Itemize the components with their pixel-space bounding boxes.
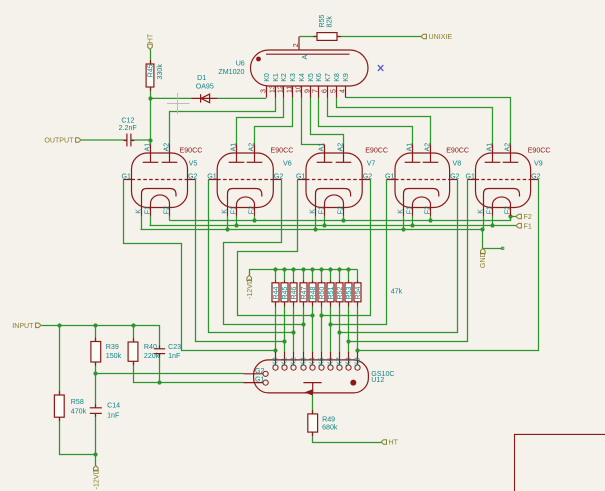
svg-text:F2: F2 xyxy=(504,206,512,214)
resistor R48 47k array xyxy=(309,283,316,302)
U12 anode xyxy=(303,382,321,384)
triode tube V6 E90CC xyxy=(217,153,273,208)
svg-text:R58: R58 xyxy=(71,398,84,406)
wire resistor 6 bottom to GS10C pin column xyxy=(321,307,323,353)
U12 cathode pin K5 xyxy=(319,365,324,370)
nixie tube U6 ZM1020 xyxy=(251,50,369,86)
wire R49 bottom to HT label xyxy=(313,433,382,443)
wire V9 G1 to GS10C pin K8 column xyxy=(349,180,468,342)
svg-text:F1: F1 xyxy=(318,206,326,214)
U12 cathode pin K2 xyxy=(291,365,296,370)
svg-text:A1: A1 xyxy=(144,143,152,152)
label HT (bottom right) xyxy=(381,440,386,445)
label OUTPUT xyxy=(76,138,81,143)
junction F1 bus at V9 xyxy=(490,223,494,227)
svg-text:K7: K7 xyxy=(335,357,343,366)
svg-text:3: 3 xyxy=(259,89,267,93)
svg-text:E90CC: E90CC xyxy=(271,146,294,154)
label HT (top) xyxy=(148,44,153,49)
wire -12VD bus to R array resistor 9 top xyxy=(348,270,350,281)
wire V8 G2 to GS10C pin K7 column xyxy=(340,180,458,333)
junction -12VD bus at resistor 8 xyxy=(337,267,341,271)
wire input node down to R40 xyxy=(133,326,135,343)
label F1 xyxy=(516,223,521,228)
resistor R51 47k array xyxy=(327,283,334,302)
DNP marker X xyxy=(378,65,383,71)
svg-text:K6: K6 xyxy=(326,357,334,366)
wire resistor 8 bottom to GS10C pin column xyxy=(339,307,341,353)
label UNIXIE xyxy=(421,34,426,39)
svg-text:F2: F2 xyxy=(337,206,345,214)
wire OUTPUT label to C12 xyxy=(81,139,127,141)
svg-text:9: 9 xyxy=(303,89,311,93)
junction -12VD bus at resistor 3 xyxy=(291,267,295,271)
component lead stubs xyxy=(150,60,152,64)
junction GS10C column 1 grid tap xyxy=(273,348,277,352)
wire net K5: nixie pin 9 to V7 A2 xyxy=(311,98,344,145)
resistor R45 xyxy=(146,64,154,87)
svg-text:R49: R49 xyxy=(322,416,335,424)
junction -12VD bus at resistor 2 xyxy=(282,267,286,271)
capacitor C12 xyxy=(126,134,128,147)
wire -12VD node to label xyxy=(95,455,97,466)
wire resistor 10 bottom to GS10C pin column xyxy=(357,307,359,353)
junction F1 bus at V7 xyxy=(322,223,326,227)
svg-text:F1: F1 xyxy=(524,222,532,230)
svg-text:82k: 82k xyxy=(325,16,333,28)
svg-text:C23: C23 xyxy=(168,343,181,351)
resistor R58 xyxy=(54,395,64,417)
V6 plate A2 xyxy=(254,145,256,163)
U12 cathode pin K0 xyxy=(273,365,278,370)
svg-text:G1: G1 xyxy=(122,173,132,181)
junction GS10C column 8 grid tap xyxy=(337,330,341,334)
label -12VD (bottom left) xyxy=(94,466,99,471)
triode tube V9 E90CC xyxy=(476,153,531,208)
wire K bus to GND label xyxy=(483,230,503,249)
svg-text:F1: F1 xyxy=(144,206,152,214)
V6 grid line and pins G1 G2 xyxy=(217,179,273,181)
svg-text:-12VD: -12VD xyxy=(246,279,254,299)
svg-text:R44: R44 xyxy=(272,286,280,299)
V9 filament F1 F2 xyxy=(493,197,511,208)
wire net K1: nixie pin 13 to V5 A2 xyxy=(170,98,276,145)
U12 cathode pin K3 xyxy=(301,365,306,370)
junction input line at R58 xyxy=(57,323,61,327)
svg-text:UNIXIE: UNIXIE xyxy=(429,33,453,41)
junction input line at R40 xyxy=(131,323,135,327)
V6 filament F1 F2 xyxy=(237,197,255,208)
wire resistor 7 bottom to GS10C pin column xyxy=(330,307,332,353)
svg-text:K3: K3 xyxy=(289,73,297,82)
svg-text:2: 2 xyxy=(292,43,300,47)
svg-text:F2: F2 xyxy=(524,213,532,221)
svg-text:G2: G2 xyxy=(188,173,198,181)
wire -12VD bus to R array resistor 8 top xyxy=(339,270,341,281)
wire GS10C anode to R49 xyxy=(312,393,314,414)
svg-text:5: 5 xyxy=(329,89,337,93)
resistor R55 xyxy=(317,33,337,41)
junction F2 bus at V8 xyxy=(428,218,432,222)
svg-text:R46: R46 xyxy=(290,286,298,299)
wire net K9: nixie pin 4 to V9 A2 xyxy=(346,98,511,145)
svg-text:A2: A2 xyxy=(424,143,432,152)
wire V5 K pin to K bus xyxy=(141,216,143,230)
diode D1 OA95 xyxy=(191,97,217,99)
junction -12VD bus at resistor 1 xyxy=(273,267,277,271)
junction GS10C column 7 grid tap xyxy=(328,322,332,326)
V7 grid line and pins G1 G2 xyxy=(306,179,362,181)
junction K bus at V8 xyxy=(401,227,405,231)
junction F2 bus at V9 xyxy=(508,214,512,218)
wire V7 G2 to GS10C pin K5 column xyxy=(322,180,371,316)
svg-text:U6: U6 xyxy=(236,60,245,68)
svg-text:R52: R52 xyxy=(336,286,344,299)
svg-text:K2: K2 xyxy=(289,357,297,366)
nixie U6 cathode pins K0-K9 xyxy=(266,86,268,98)
wire resistor 3 bottom to GS10C pin column xyxy=(293,307,295,353)
svg-text:10: 10 xyxy=(294,85,302,93)
wire resistor 4 bottom to GS10C pin column xyxy=(303,307,305,353)
svg-text:E90CC: E90CC xyxy=(446,146,469,154)
svg-text:A2: A2 xyxy=(248,143,256,152)
svg-text:1nF: 1nF xyxy=(168,352,181,360)
U12 cathode pin K4 xyxy=(310,365,315,370)
svg-text:K9: K9 xyxy=(342,73,350,82)
svg-text:470k: 470k xyxy=(71,408,87,416)
svg-text:K3: K3 xyxy=(299,357,307,366)
wire -12VD bus to R array resistor 10 top xyxy=(357,270,359,281)
svg-text:1nF: 1nF xyxy=(107,412,120,420)
resistor R53 47k array xyxy=(345,283,352,302)
V9 plate A2 xyxy=(510,145,512,163)
svg-text:A1: A1 xyxy=(318,143,326,152)
wire -12VD bus to R array resistor 4 top xyxy=(303,270,305,281)
V5 grid line and pins G1 G2 xyxy=(132,179,188,181)
svg-text:C12: C12 xyxy=(121,116,134,124)
V9 cathode xyxy=(484,189,520,208)
resistor R50 47k array xyxy=(318,283,325,302)
label INPUT xyxy=(36,323,41,328)
svg-text:A1: A1 xyxy=(486,143,494,152)
label F2 xyxy=(516,214,521,219)
junction F1 bus at V8 xyxy=(410,223,414,227)
svg-text:A1: A1 xyxy=(406,143,414,152)
svg-text:K2: K2 xyxy=(280,73,288,82)
svg-text:2.2nF: 2.2nF xyxy=(119,124,138,132)
svg-text:G1: G1 xyxy=(207,173,217,181)
wire C23 junction to GS10C G1 xyxy=(160,382,244,384)
svg-text:150k: 150k xyxy=(106,352,122,360)
svg-text:R48: R48 xyxy=(309,286,317,299)
junction GS10C column 2 grid tap xyxy=(282,339,286,343)
svg-text:A: A xyxy=(301,55,309,60)
V5 plate A2 xyxy=(169,145,171,163)
wire net K2: nixie pin 12 to V6 A1 xyxy=(237,98,284,145)
junction C23/R40/G1 node xyxy=(157,380,161,384)
svg-text:K: K xyxy=(135,209,143,214)
svg-text:K1: K1 xyxy=(280,357,288,366)
triode tube V8 E90CC xyxy=(395,153,450,208)
svg-text:4: 4 xyxy=(338,89,346,93)
V5 filament F1 F2 xyxy=(151,195,170,208)
wire V5 F1 pin to F1 bus xyxy=(150,216,152,226)
svg-text:K: K xyxy=(397,209,405,214)
svg-text:R54: R54 xyxy=(354,286,362,299)
wire nixie pin 2 to R55 xyxy=(300,36,318,38)
svg-text:330k: 330k xyxy=(156,64,164,80)
capacitor C23 xyxy=(154,348,165,350)
V8 grid line and pins G1 G2 xyxy=(395,179,450,181)
U12 cathode pin K6 xyxy=(328,365,333,370)
svg-text:F2: F2 xyxy=(248,206,256,214)
V7 cathode xyxy=(316,189,351,208)
junction GS10C column 6 grid tap xyxy=(319,313,323,317)
svg-text:A2: A2 xyxy=(337,143,345,152)
wire resistor 9 bottom to GS10C pin column xyxy=(348,307,350,353)
V7 bottom pin stubs xyxy=(315,208,317,216)
U12 cathode pin K8 xyxy=(346,365,351,370)
triode tube V5 E90CC xyxy=(132,153,188,208)
nixie U6 anode pin 2 xyxy=(298,37,300,51)
svg-text:K1: K1 xyxy=(272,73,280,82)
wire V9 F1 pin to F1 bus xyxy=(492,216,494,226)
wire -12VD bus to R array resistor 2 top xyxy=(284,270,286,281)
svg-text:13: 13 xyxy=(268,85,276,93)
svg-text:G2: G2 xyxy=(531,173,541,181)
junction F2 bus at V6 xyxy=(252,218,256,222)
svg-text:K0: K0 xyxy=(263,73,271,82)
svg-text:C14: C14 xyxy=(107,402,120,410)
junction GS10C column 4 grid tap xyxy=(301,322,305,326)
wire net K8: nixie pin 5 to V9 A1 xyxy=(337,98,493,145)
svg-text:G1: G1 xyxy=(385,173,395,181)
resistor R40 xyxy=(128,342,138,361)
V8 cathode xyxy=(404,189,439,208)
svg-text:GND: GND xyxy=(479,252,487,268)
svg-text:G2: G2 xyxy=(450,173,460,181)
wire V5 F2 pin to F2 bus xyxy=(169,216,171,221)
wire R39 bottom junction to GS10C G2 xyxy=(96,373,244,375)
junction GS10C column 9 grid tap xyxy=(346,339,350,343)
V5 cathode xyxy=(142,189,177,208)
wire V6 F2 pin to F2 bus xyxy=(254,216,256,221)
svg-text:K9: K9 xyxy=(353,357,361,366)
svg-text:R45: R45 xyxy=(281,286,289,299)
wire input node down to R39 xyxy=(95,326,97,342)
dekatron tube U12 GS10C xyxy=(254,360,369,393)
V8 bottom pin stubs xyxy=(403,208,405,216)
wire -12VD bus to R array resistor 3 top xyxy=(293,270,295,281)
svg-text:680k: 680k xyxy=(322,423,338,431)
svg-text:V9: V9 xyxy=(534,159,543,167)
junction -12VD bus at resistor 6 xyxy=(319,267,323,271)
wire V8 F2 pin to F2 bus xyxy=(430,216,432,221)
svg-text:R40: R40 xyxy=(144,343,157,351)
wire resistor 1 bottom to GS10C pin column xyxy=(275,307,277,353)
svg-text:R50: R50 xyxy=(318,286,326,299)
resistor R49 xyxy=(308,414,318,432)
wire resistor 5 bottom to GS10C pin column xyxy=(312,307,314,353)
wire V7 F2 pin to F2 bus xyxy=(343,216,345,221)
wire resistor 2 bottom to GS10C pin column xyxy=(284,307,286,353)
wire V8 K pin to K bus xyxy=(403,216,405,230)
svg-text:OA95: OA95 xyxy=(196,83,214,91)
V8 plate A2 xyxy=(430,145,432,163)
svg-text:K7: K7 xyxy=(324,73,332,82)
wire R45 bottom to K0 junction xyxy=(150,88,152,99)
svg-text:12: 12 xyxy=(276,85,284,93)
svg-text:HT: HT xyxy=(389,439,399,447)
wire net K3: nixie pin 11 to V6 A2 xyxy=(255,98,293,145)
junction K bus at V6 xyxy=(225,227,229,231)
wire R39 bottom to G2 node xyxy=(95,363,97,374)
wire net K4: nixie pin 10 to V7 A1 xyxy=(302,98,325,145)
wire V6 K pin to K bus xyxy=(227,216,229,230)
wire -12VD bus to R array resistor 7 top xyxy=(330,270,332,281)
U12 guide pins G1 G2 xyxy=(263,371,268,376)
wire F1 bus xyxy=(150,225,517,227)
V6 bottom pin stubs xyxy=(227,208,229,216)
junction F2 bus at V7 xyxy=(341,218,345,222)
svg-text:K0: K0 xyxy=(271,357,279,366)
wire V9 F2 pin to F2 bus xyxy=(510,216,512,221)
svg-text:R51: R51 xyxy=(327,286,335,299)
svg-text:F2: F2 xyxy=(424,206,432,214)
svg-text:V6: V6 xyxy=(283,159,292,167)
wire net K7: nixie pin 6 to V8 A2 xyxy=(328,98,431,145)
wire net K0: nixie pin 3 to D1 and R45/C12 junction xyxy=(218,97,267,99)
svg-text:11: 11 xyxy=(285,86,293,93)
label GND xyxy=(481,248,486,253)
sheet box corner bottom-right xyxy=(515,434,605,491)
resistor R47 47k array xyxy=(300,283,307,302)
V6 plate A1 xyxy=(236,145,238,163)
V9 grid line and pins G1 G2 xyxy=(476,179,531,181)
svg-text:F1: F1 xyxy=(486,206,494,214)
wire -12VD bus to R array resistor 1 top xyxy=(275,270,277,281)
junction R45/D1/V5A1 node xyxy=(148,96,152,100)
triode tube V7 E90CC xyxy=(306,153,362,208)
svg-text:A1: A1 xyxy=(230,143,238,152)
wire V6 F1 pin to F1 bus xyxy=(236,216,238,226)
U12 cathode pin K7 xyxy=(337,365,342,370)
U12 index dot xyxy=(350,380,356,386)
wire -12VD bus above resistor array xyxy=(250,270,358,276)
V7 filament F1 F2 xyxy=(325,195,344,208)
svg-text:K6: K6 xyxy=(315,73,323,82)
svg-text:ZM1020: ZM1020 xyxy=(218,68,244,76)
wire -12VD bus to R array resistor 6 top xyxy=(321,270,323,281)
svg-text:F2: F2 xyxy=(163,206,171,214)
wire V6 G1 to GS10C pin K2 column xyxy=(209,180,295,333)
junction K bus at V7 xyxy=(313,227,317,231)
wire V5 G2 to GS10C pin K1 column xyxy=(196,180,285,342)
svg-text:G1: G1 xyxy=(466,173,476,181)
resistor R54 47k array xyxy=(354,283,361,302)
svg-text:A2: A2 xyxy=(504,143,512,152)
junction -12VD bus at resistor 9 xyxy=(346,267,350,271)
wire net K6: nixie pin 7 to V8 A1 xyxy=(319,98,413,145)
junction -12VD bus at resistor 5 xyxy=(310,267,314,271)
svg-text:V7: V7 xyxy=(367,159,376,167)
svg-text:V5: V5 xyxy=(189,159,198,167)
wire V7 K pin to K bus xyxy=(315,216,317,230)
V7 plate A2 xyxy=(343,145,345,163)
wire INPUT label to R39/R40/C23 xyxy=(42,326,160,349)
wire junction down to C12/A1 node xyxy=(150,99,152,141)
svg-text:6: 6 xyxy=(320,89,328,93)
U12 cathode pin K9 xyxy=(355,365,360,370)
svg-text:D1: D1 xyxy=(197,74,206,82)
svg-text:E90CC: E90CC xyxy=(180,146,203,154)
V5 plate A1 xyxy=(150,145,152,163)
resistor R52 47k array xyxy=(336,283,343,302)
wire R58 bottom to -12VD node xyxy=(60,418,96,455)
wire V8 G1 to GS10C pin K6 column xyxy=(331,180,387,325)
svg-text:HT: HT xyxy=(146,33,154,43)
wire C12 junction to V5 A1 pin xyxy=(150,141,152,145)
junction input line at R39 xyxy=(93,323,97,327)
V7 plate A1 xyxy=(324,145,326,163)
wire F2 bus xyxy=(170,217,517,221)
svg-text:R39: R39 xyxy=(106,343,119,351)
wire V6 G2 to GS10C pin K3 column xyxy=(224,180,304,325)
V9 bottom pin stubs xyxy=(483,208,485,216)
resistor R44 47k array xyxy=(272,283,279,302)
svg-text:47k: 47k xyxy=(391,288,403,296)
svg-text:G2: G2 xyxy=(274,173,284,181)
V9 plate A1 xyxy=(492,145,494,163)
V6 cathode xyxy=(228,189,262,208)
svg-text:R45: R45 xyxy=(146,64,154,77)
svg-text:7: 7 xyxy=(311,89,319,93)
svg-text:K5: K5 xyxy=(307,73,315,82)
V8 plate A1 xyxy=(412,145,414,163)
svg-text:E90CC: E90CC xyxy=(528,146,551,154)
junction C12/V5 A1 node xyxy=(148,138,152,142)
junction -12VD bus at resistor 7 xyxy=(328,267,332,271)
wire C23 bottom to G1 node xyxy=(159,354,161,383)
wire V7 F1 pin to F1 bus xyxy=(324,216,326,226)
svg-text:-12VD: -12VD xyxy=(93,469,101,489)
wire -12VD bus to R array resistor 5 top xyxy=(312,270,314,281)
wire V7 G1 to GS10C pin K4 column xyxy=(238,180,313,316)
svg-text:K: K xyxy=(309,209,317,214)
wire C14 bottom to -12VD node xyxy=(95,414,97,455)
wire V5 G1 to GS10C pin K0 column xyxy=(124,180,276,351)
V8 filament F1 F2 xyxy=(413,197,431,208)
svg-text:OUTPUT: OUTPUT xyxy=(44,137,74,145)
svg-text:INPUT: INPUT xyxy=(12,322,34,330)
wire G2 node down to C14 xyxy=(95,374,97,408)
svg-text:G1: G1 xyxy=(296,173,306,181)
svg-text:K: K xyxy=(477,209,485,214)
junction C14/R58/-12VD node xyxy=(93,452,97,456)
svg-text:R47: R47 xyxy=(300,286,308,299)
wire V8 F1 pin to F1 bus xyxy=(412,216,414,226)
wire K bus xyxy=(141,229,483,231)
svg-text:E90CC: E90CC xyxy=(365,146,388,154)
junction -12VD bus at resistor 4 xyxy=(301,267,305,271)
svg-text:K4: K4 xyxy=(308,357,316,366)
crosshair marks xyxy=(167,93,190,114)
svg-text:G2: G2 xyxy=(363,173,373,181)
junction K bus at V9 / GND drop xyxy=(480,227,484,231)
wire R55 to UNIXIE label xyxy=(338,36,422,38)
wire R40 bottom to C23 bottom junction xyxy=(134,362,160,383)
capacitor C14 xyxy=(90,407,102,409)
